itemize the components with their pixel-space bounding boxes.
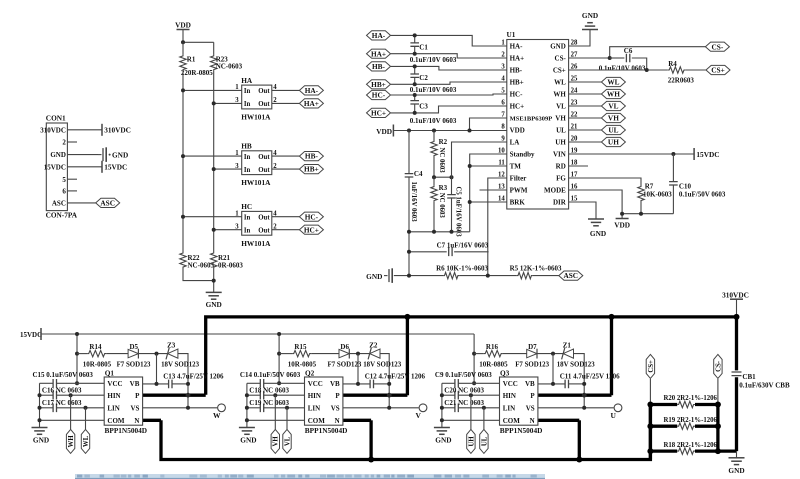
svg-text:C6: C6 [624,47,633,55]
svg-text:HC-: HC- [372,91,386,100]
svg-text:GND: GND [550,43,566,51]
svg-text:R2: R2 [439,138,448,146]
svg-text:Q3: Q3 [500,369,510,378]
svg-text:HC+: HC+ [304,225,319,234]
svg-text:R15: R15 [294,343,307,351]
svg-text:15VDC: 15VDC [20,331,42,339]
junction subrail C5 [450,230,454,234]
svg-text:In: In [244,88,251,95]
svg-text:CB1: CB1 [742,373,756,381]
wire Q3 VS row to phase node [538,407,614,409]
capacitor C18 NC 0603 [247,387,305,400]
svg-text:WL: WL [607,78,619,87]
svg-text:In: In [244,215,251,222]
resistor R2 NC 0603 [431,131,448,178]
power symbol VDD (MODE) [614,219,630,230]
junction C11 left [551,382,555,386]
svg-text:10K-0603: 10K-0603 [643,190,672,198]
svg-text:LA: LA [510,139,520,147]
wire 310VDC down to bus [736,299,738,317]
zener Z3 18V SOD123 [161,342,200,408]
svg-text:VCC: VCC [107,380,122,388]
junction rail LIN [38,406,42,410]
svg-text:N: N [530,417,535,425]
capacitor C1 0.1uF/10V 0603 [410,35,457,63]
svg-text:CS+: CS+ [648,360,655,373]
svg-text:In: In [244,101,251,108]
ground port GND (CON1) [98,147,128,162]
svg-text:UH: UH [468,436,475,447]
svg-text:VL: VL [556,103,566,111]
svg-text:10R-0805: 10R-0805 [479,361,508,369]
junction 310VDC/bus [734,314,740,320]
wire HB+ to U1 pin4 [391,82,507,84]
junction C2 top [413,64,417,68]
wire R2/R3 junction row [434,176,452,178]
wire node down to VB row [357,354,359,384]
net tag CS+ (shunt) [646,354,655,378]
net tag HC- (output) [299,212,323,221]
ground GND (Q1) [32,428,50,445]
junction CS+/C6 [645,68,649,72]
svg-text:WH: WH [553,91,566,99]
svg-text:F7 SOD123: F7 SOD123 [515,362,549,369]
svg-text:15VDC: 15VDC [44,163,66,171]
capacitor C9 0.1uF/50V 0603 [435,371,500,387]
wire U1 pin13 PWM stub [480,189,507,191]
svg-text:DIR: DIR [553,199,567,207]
wire Q3 P drop (thick) [610,317,613,395]
net tag CS+ (top right) [706,65,730,74]
svg-text:18V SOD123: 18V SOD123 [363,362,402,369]
resistor R18 2R2-1%-1206 [650,442,718,455]
svg-text:BPP1N5004D: BPP1N5004D [305,426,348,435]
svg-text:GND: GND [435,436,451,445]
svg-text:CS+: CS+ [553,67,566,75]
svg-text:HB-: HB- [510,67,523,75]
net tag UH [601,137,625,146]
wire CON1 pin2 stub [67,141,77,143]
wire 15VDC bottom rail [41,333,474,335]
svg-text:Out: Out [258,215,270,222]
resistor R14 10R-0805 [77,343,112,369]
svg-text:D5: D5 [130,343,139,351]
wire shunt GND row (thick) [718,449,737,452]
svg-text:NC-0603: NC-0603 [216,63,243,71]
svg-text:HA+: HA+ [371,49,386,58]
wire Q1 N row (thick) [143,419,161,422]
svg-text:VB: VB [130,380,140,388]
junction rail HIN [38,393,42,397]
junction R21 bottom [212,279,216,283]
wire CS- tag drop [717,379,719,405]
junction BRK [468,200,472,204]
junction drop/VCC row [472,381,476,385]
junction rail B HC [212,228,216,232]
net tag HB+ (input) [367,80,391,89]
capacitor C12 4.7uF/25V 1206 [343,372,426,388]
wire 310VDC top bus (thick) [206,317,737,395]
svg-text:In: In [244,228,251,235]
wire U1 pin9 LA to C5 [452,142,507,195]
svg-text:HA-: HA- [372,31,386,40]
svg-text:Z3: Z3 [167,342,176,350]
svg-text:CS-: CS- [555,55,567,63]
net tag UL [601,125,625,134]
junction C13 right [186,382,190,386]
wire U1 to VL tag [569,105,602,107]
svg-text:HC-: HC- [510,91,523,99]
net tag HA- (output) [299,86,323,95]
net tag HC- (input) [367,90,391,99]
junction 15VDC drop Q1 [75,332,79,336]
svg-text:12: 12 [498,172,505,179]
ground GND (hall rails) [206,292,222,309]
capacitor C11 4.7uF/25V 1206 [538,372,620,388]
capacitor C20 NC 0603 [442,387,500,400]
capacitor C2 0.1uF/10V 0603 [410,66,457,94]
capacitor C13 4.7uF/25V 1206 [143,372,224,388]
wire HIN tag drop [470,395,472,429]
net tag VL [601,101,625,110]
svg-text:5: 5 [501,88,505,95]
svg-text:18V SOD123: 18V SOD123 [557,362,596,369]
resistor R7 10K-0603 [638,182,672,213]
svg-text:CS+: CS+ [711,66,725,75]
junction VDD/C4 [407,129,411,133]
svg-text:C12 4.7uF/25V 1206: C12 4.7uF/25V 1206 [365,372,426,380]
resistor R22 NC-0603 [180,252,215,270]
svg-text:4: 4 [501,76,505,83]
wire LIN tag drop [286,408,288,430]
wire rail B to HB pin3 [214,168,242,170]
ground GND (Q2) [239,428,257,445]
svg-text:HB: HB [241,142,252,151]
svg-text:Out: Out [258,101,270,108]
wire R22/R21 bottoms join [183,268,214,281]
wire U1 pin16 MODE down [569,190,623,219]
ground GND (Q3) [434,428,452,445]
svg-text:NC 0603: NC 0603 [438,193,445,219]
svg-text:P: P [530,392,535,400]
power port 310VDC [102,124,131,136]
svg-text:C4: C4 [414,170,423,178]
net tag UH [467,429,476,453]
svg-text:HB+: HB+ [510,79,524,87]
capacitor C10 0.1uF/50V 0603 [669,154,726,214]
junction bus / Q2 drop [404,314,410,320]
node phase U terminal [610,404,621,420]
capacitor C6 0.1uF/10V 0603 [599,47,647,72]
wire U1 pin15 DIR to GND [569,202,596,219]
svg-text:GND: GND [590,229,606,238]
svg-text:BRK: BRK [510,199,526,207]
svg-text:C15 0.1uF/50V 0603: C15 0.1uF/50V 0603 [33,371,94,379]
junction VDD/R2 [432,129,436,133]
svg-text:C10: C10 [679,182,692,190]
svg-text:HA: HA [241,76,253,85]
svg-text:0.1uF/10V 0603: 0.1uF/10V 0603 [599,65,646,73]
wire U1 pin12 Filter down [488,178,507,252]
transistor module Q3 BPP1N5004D [500,369,543,435]
svg-text:9: 9 [501,136,505,143]
junction LIN tag [482,406,486,410]
svg-text:VH: VH [608,114,619,123]
wire rail A (R1 to R22) [182,71,184,252]
svg-text:22R0603: 22R0603 [668,77,695,85]
svg-text:LIN: LIN [308,404,320,412]
wire HA- to U1 pin1 [391,35,507,46]
capacitor C7 1uF/16V 0603 [409,242,489,256]
power symbol VDD (top) [175,20,191,29]
junction MODE rail left [620,212,624,216]
wire HB pin2 to tag [272,168,300,170]
svg-text:VH: VH [273,436,280,447]
wire 15VDC drop to Q1 VCC [76,334,78,383]
wire Q3 N row (thick) [538,419,579,422]
svg-text:R18 2R2-1%-1206: R18 2R2-1%-1206 [664,442,718,449]
wire rail A to HB pin1 [183,155,242,157]
svg-text:13: 13 [498,184,505,191]
svg-text:C3: C3 [419,102,428,110]
svg-text:BPP1N5004D: BPP1N5004D [500,426,543,435]
junction rail B HA [212,101,216,105]
resistor R4 22R0603 [668,60,695,85]
svg-text:VIN: VIN [553,151,566,159]
wire R5 to ASC tag [533,275,559,277]
wire Q1 P row (thick) [143,394,206,397]
net tag VL [283,429,292,453]
svg-text:C18 NC 0603: C18 NC 0603 [249,387,289,395]
svg-text:WL: WL [554,79,566,87]
wire CS+ tag drop [649,379,651,405]
wire HA pin4 to tag [272,89,300,91]
wire U1 pin18 RD stub [569,165,588,167]
net tag VH [271,429,280,453]
power port 15VDC (CON1) [102,161,127,173]
wire CON1 pin7 to ASC tag [67,202,95,204]
wire cap rail to COM/GND [441,383,443,427]
power port VDD (mid) [376,125,393,137]
svg-text:HA-: HA- [305,86,319,95]
svg-text:15VDC: 15VDC [696,150,719,159]
svg-text:Q1: Q1 [105,369,115,378]
svg-text:V: V [415,411,421,420]
svg-text:GND: GND [33,436,49,445]
net tag HA- (input) [367,31,391,40]
svg-text:R4: R4 [668,60,677,68]
net tag ASC (CON1) [96,198,120,207]
capacitor C16 NC 0603 [40,387,105,400]
wire U1 pin10 Standby down [470,154,507,232]
ground GND (bottom right) [728,458,744,475]
svg-text:VDD: VDD [614,221,630,230]
junction HIN tag [69,393,73,397]
svg-text:C13 4.7uF/25V 1206: C13 4.7uF/25V 1206 [163,372,224,380]
wire U1 to UH tag [569,141,602,143]
svg-text:VB: VB [330,380,340,388]
junction LIN tag [84,406,88,410]
junction N bus / Q3 [576,457,582,463]
connector CON1 CON-7PA [40,114,78,220]
wire HA+ to U1 pin2 [391,54,507,58]
svg-text:ASC: ASC [52,200,66,208]
svg-text:6: 6 [62,188,66,196]
net tag HC+ (output) [299,225,323,234]
junction C4/subrail [407,230,411,234]
svg-text:HW101A: HW101A [241,113,271,122]
svg-text:UH: UH [608,138,619,147]
svg-text:0.1uF/50V 0603: 0.1uF/50V 0603 [679,190,726,198]
capacitor C5 1uF/16V 0603 [447,187,462,238]
svg-text:HW101A: HW101A [241,239,271,248]
wire node down to VB row [156,354,158,384]
junction drop/R14 [75,352,79,356]
net tag UL [480,429,489,453]
wire HA pin2 to tag [272,102,300,104]
junction VS/zener column [387,406,391,410]
wire D6 to node [348,353,370,355]
svg-text:C5 1uF/16V 0603: C5 1uF/16V 0603 [455,187,462,238]
junction N bus / Q2 [368,457,374,463]
hall sensor HB HW101A [235,142,277,188]
svg-text:MSE1BP6309P: MSE1BP6309P [510,116,553,123]
svg-text:HA-: HA- [510,43,523,51]
wire HB- to U1 pin3 [391,66,507,70]
wire R6 to R5 [459,275,517,277]
junction shunt R18 right [715,448,721,454]
wire 15VDC drop to Q2 VCC [278,334,280,383]
svg-text:R1: R1 [187,56,196,64]
svg-text:NC 0603: NC 0603 [438,148,445,174]
resistor R16 10R-0805 [474,343,508,369]
svg-text:ASC: ASC [100,199,115,208]
net tag HA+ (input) [367,49,391,58]
junction rail COM [245,418,249,422]
svg-text:0.1uF/630V CBB: 0.1uF/630V CBB [739,381,790,389]
net tag CS- (top right) [705,42,729,51]
junction C11 right [582,382,586,386]
wire VDD branch to U1 pin7 [470,118,507,131]
wire Q2 VS row to phase node [343,407,419,409]
net tag VH [601,113,625,122]
svg-text:P: P [335,392,340,400]
svg-text:10R-0805: 10R-0805 [83,361,112,369]
svg-text:F7 SOD123: F7 SOD123 [117,362,151,369]
node phase V terminal [415,404,426,420]
wire node down to VB row [552,354,554,384]
svg-text:Standby: Standby [510,151,535,159]
svg-text:5: 5 [62,176,66,184]
svg-text:2: 2 [62,139,66,147]
zener Z1 18V SOD123 [557,342,596,408]
svg-text:GND: GND [728,466,744,475]
svg-text:VDD: VDD [510,127,525,135]
wire U1 to WL tag [569,81,602,83]
wire LIN tag drop [483,408,485,430]
junction rail B HB [212,167,216,171]
wire U1 to WH tag [569,93,602,95]
junction TM [468,164,472,168]
svg-text:0R-0603: 0R-0603 [218,262,243,270]
wire rail B (R23 to R21) [213,71,215,252]
net tag HB- (output) [299,152,323,161]
junction shunt R19 right [715,423,721,429]
svg-text:R14: R14 [89,343,102,351]
svg-text:310VDC: 310VDC [40,126,66,134]
junction C12 left [356,382,360,386]
svg-text:BPP1N5004D: BPP1N5004D [105,426,148,435]
junction LIN tag [285,406,289,410]
junction rail LIN [440,406,444,410]
svg-text:D7: D7 [528,343,537,351]
wire Q2 P row (thick) [343,394,408,397]
junction rail A HC [181,215,185,219]
capacitor C21 NC 0603 [442,399,500,412]
wire D7 to node [536,353,564,355]
wire cap rail to COM/GND [39,383,41,427]
net tag HA+ (output) [299,99,323,108]
svg-text:R7: R7 [645,182,654,190]
capacitor CB1 0.1uF/630V CBB [732,317,790,451]
svg-text:Q2: Q2 [305,369,315,378]
junction P row / zener column [186,393,191,398]
net tag WL [81,429,90,453]
wire GND rail to R6 [394,275,443,277]
resistor R15 10R-0805 [279,343,316,369]
svg-text:C17 NC 0603: C17 NC 0603 [42,399,82,407]
svg-text:WH: WH [607,90,620,99]
junction drop/R15 [277,352,281,356]
junction C13 left [155,382,159,386]
wire MODE/R7/C10 rail [622,213,673,215]
svg-text:310VDC: 310VDC [722,290,749,299]
capacitor C15 0.1uF/50V 0603 [33,371,105,387]
wire Filter column to GND rail [487,252,489,276]
svg-text:P: P [135,392,140,400]
svg-text:Out: Out [258,154,270,161]
wire CON1 pin6 stub [67,190,77,192]
junction HIN tag [273,393,277,397]
svg-text:GND: GND [582,11,598,20]
svg-text:HC: HC [241,202,252,211]
svg-text:R16: R16 [486,343,499,351]
junction C3 bottom [413,111,417,115]
junction drop/VCC row [75,381,79,385]
diode D7 F7 SOD123 [503,343,550,369]
wire HC pin2 to tag [272,229,300,231]
transistor module Q2 BPP1N5004D [305,369,348,435]
net tag HC+ (input) [367,108,391,117]
svg-text:6: 6 [501,100,505,107]
wire rail B to HC pin3 [214,229,242,231]
svg-text:D6: D6 [340,343,349,351]
svg-text:2: 2 [501,52,505,59]
net tag CS- (shunt) [714,354,723,378]
svg-text:FG: FG [556,175,566,183]
svg-text:CON-7PA: CON-7PA [46,211,78,220]
svg-text:C20 NC 0603: C20 NC 0603 [444,387,484,395]
svg-text:220R-0805: 220R-0805 [181,69,213,77]
junction P row / zener column [387,393,392,398]
resistor R5 12K-1%-0603 [510,265,562,279]
svg-text:CON1: CON1 [46,114,66,123]
power port 310VDC (bottom) [722,290,749,299]
capacitor C14 0.1uF/50V 0603 [240,371,305,387]
svg-text:14: 14 [498,196,505,203]
svg-text:C7 1uF/16V 0603: C7 1uF/16V 0603 [437,242,489,250]
wire U1 to VH tag [569,117,602,119]
